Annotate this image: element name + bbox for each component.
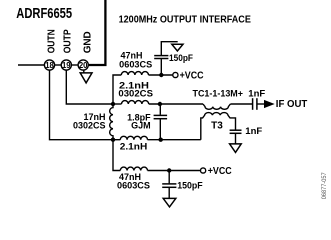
svg-text:GJM: GJM	[131, 120, 151, 130]
svg-text:0302CS: 0302CS	[118, 88, 153, 98]
pin 19	[61, 60, 71, 70]
junction (top 150pF tap)	[159, 73, 163, 77]
capacitor C1 150pF (top)	[154, 42, 178, 75]
svg-text:2.1nH: 2.1nH	[120, 142, 148, 152]
top rail wire (right)	[149, 103, 203, 105]
junction (bottom-right loop)	[159, 138, 163, 142]
wire top branch riser	[113, 75, 121, 104]
bottom rail wire (left)	[113, 139, 120, 141]
wire top rail to series cap	[230, 103, 252, 105]
svg-text:TC1-1-13M+: TC1-1-13M+	[193, 89, 244, 100]
ground (bottom 150pF)	[163, 198, 176, 207]
svg-text:+VCC: +VCC	[180, 71, 204, 82]
junction (bottom-left loop)	[111, 138, 115, 142]
wire OUTN stub left	[18, 64, 44, 66]
wire pin19 to top rail	[66, 70, 113, 104]
svg-text:OUTP: OUTP	[63, 29, 74, 53]
svg-text:GND: GND	[82, 31, 93, 53]
wire top branch to +VCC	[149, 74, 173, 76]
svg-text:20: 20	[79, 61, 88, 70]
svg-text:0603CS: 0603CS	[117, 181, 150, 191]
svg-text:IF OUT: IF OUT	[276, 99, 308, 110]
op-amp U1: ADRF6655 chip outline	[89, 0, 105, 65]
wire pin18 to bottom rail	[50, 70, 114, 140]
pin 20	[78, 60, 88, 70]
inductor L4 2.1nH (bottom)	[120, 136, 147, 139]
node IF OUT arrow	[264, 100, 273, 107]
node +VCC (bottom)	[201, 166, 232, 177]
svg-text:0302CS: 0302CS	[73, 121, 106, 131]
svg-text:1nF: 1nF	[248, 88, 265, 99]
bottom rail wire (right)	[148, 139, 201, 141]
capacitor C4 1nF (series, output)	[253, 98, 265, 110]
svg-text:150pF: 150pF	[177, 180, 203, 190]
ground (top 150pF)	[172, 44, 183, 51]
capacitor C2 1.8pF GJM	[154, 104, 168, 140]
svg-text:19: 19	[62, 61, 71, 70]
ground (pin 20)	[80, 70, 92, 83]
junction (top-left loop)	[111, 102, 115, 106]
inductor L3 17nH 0302CS (vertical)	[110, 104, 113, 140]
capacitor C3 150pF (bottom)	[162, 171, 176, 199]
svg-text:1200MHz OUTPUT INTERFACE: 1200MHz OUTPUT INTERFACE	[119, 14, 252, 25]
wire bottom branch to +VCC	[148, 170, 201, 172]
capacitor C5 1nF (shunt)	[230, 130, 242, 144]
inductor L5 47nH 0603CS (bottom)	[120, 167, 147, 170]
junction (top-right loop)	[158, 102, 162, 106]
junction (bottom 150pF tap)	[167, 168, 171, 172]
top rail wire (left)	[113, 103, 122, 105]
svg-text:06877-057: 06877-057	[321, 172, 328, 199]
ground (shunt 1nF)	[230, 144, 242, 153]
inductor L2 2.1nH 0302CS (top)	[122, 101, 149, 104]
pin 18	[44, 60, 54, 70]
svg-text:+VCC: +VCC	[208, 166, 232, 177]
wire between pin18 pin19	[55, 64, 62, 66]
svg-text:150pF: 150pF	[169, 53, 193, 63]
svg-text:1nF: 1nF	[245, 126, 262, 137]
transformer T3 TC1-1-13M+ primary	[203, 104, 230, 109]
wire bottom branch riser	[113, 140, 120, 171]
inductor L1 47nH 0603CS (top)	[121, 72, 148, 75]
svg-text:0603CS: 0603CS	[119, 59, 152, 69]
svg-text:ADRF6655: ADRF6655	[16, 6, 72, 22]
wire between pin19 pin20	[71, 64, 78, 66]
transformer T3 secondary	[201, 113, 236, 140]
svg-text:OUTN: OUTN	[47, 29, 58, 53]
svg-text:T3: T3	[211, 120, 223, 131]
node +VCC (top)	[173, 71, 204, 82]
svg-text:18: 18	[45, 61, 54, 70]
